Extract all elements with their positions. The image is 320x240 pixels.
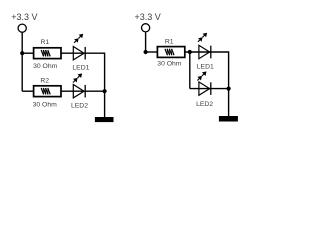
resistor R1 (right) [157, 47, 184, 58]
wire: right supply vertical [145, 32, 147, 52]
wire: left right rail vertical [104, 53, 106, 118]
wire: supply to R2 [22, 90, 34, 92]
wire: branch down to LED2 (right) [189, 52, 191, 89]
svg-text:LED2: LED2 [71, 102, 88, 109]
svg-text:+3.3 V: +3.3 V [134, 12, 160, 22]
resistor R2 [34, 86, 61, 97]
wire: R1 to LED1 to right rail (right circuit) [185, 51, 229, 53]
svg-text:R2: R2 [40, 78, 49, 85]
svg-text:R1: R1 [165, 38, 174, 45]
power terminal +3.3V (right) [142, 24, 150, 32]
LED LED1 (right) [198, 33, 211, 59]
junction dot (LED2 to rail) [103, 89, 107, 93]
svg-text:LED1: LED1 [72, 64, 89, 71]
LED LED2 (right) [197, 71, 210, 95]
wire: R1 to LED1 to right rail [61, 52, 105, 54]
wire: left supply vertical [21, 32, 23, 91]
LED LED2 (left) [73, 73, 85, 98]
ground (left) [95, 117, 114, 122]
wire: branch to LED2 (right) [190, 88, 229, 90]
bendpoint dot (right supply corner) [144, 50, 148, 54]
wire: supply to R1 [22, 52, 34, 54]
svg-text:+3.3 V: +3.3 V [11, 12, 37, 22]
junction dot (left supply to R1) [20, 51, 24, 55]
wire: R2 to LED2 to right rail [61, 90, 105, 92]
svg-text:30 Ohm: 30 Ohm [33, 63, 58, 70]
ground (right) [219, 116, 238, 122]
LED LED1 (left) [73, 34, 85, 60]
wire: supply to R1 (right) [146, 51, 159, 53]
power terminal +3.3V (left) [18, 24, 26, 32]
junction dot (LED2 to rail, right) [227, 87, 231, 91]
junction dot (R1 out branch) [188, 50, 192, 54]
wire: right rail vertical (right circuit) [228, 51, 230, 116]
svg-text:R1: R1 [41, 39, 50, 46]
resistor R1 (left) [34, 48, 61, 59]
svg-text:30 Ohm: 30 Ohm [157, 60, 182, 67]
svg-text:LED2: LED2 [196, 101, 213, 108]
svg-text:LED1: LED1 [197, 64, 214, 71]
svg-text:30 Ohm: 30 Ohm [33, 101, 58, 108]
